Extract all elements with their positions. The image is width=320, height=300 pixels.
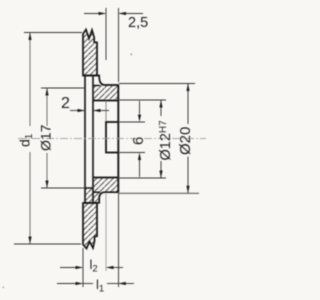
dimension l2 [60,248,123,287]
rim inner surface top [84,75,97,77]
dimension 2,5 (top) [84,8,143,82]
web lightening-hole bottom edge [85,187,93,189]
dimension d1 [14,33,82,245]
dimension diameter 17 [41,88,85,188]
svg-text:Ø20: Ø20 [177,127,194,155]
centerline axis [18,138,206,140]
dimension diameter 20 (hub) [119,84,199,194]
hub upper hatched band [93,76,118,101]
rim upper hatched area [83,30,97,76]
small scan speck [131,54,133,56]
svg-text:Ø17: Ø17 [38,124,54,151]
rim inner surface bottom [84,202,97,204]
dimension 2 (web) [70,110,109,112]
web left face [84,76,86,204]
hub right face [117,85,119,193]
boss recess step [106,122,118,153]
l2 extension from boss face [105,194,107,272]
dimension 6 (boss recess) [120,101,146,177]
svg-text:2: 2 [61,95,70,112]
svg-text:2,5: 2,5 [128,15,148,31]
dimension l1 [57,193,134,287]
hub lower hatched band + solid web (section below axis) [85,178,119,204]
boss edge seen in cavity [105,101,107,121]
svg-text:6: 6 [130,137,147,145]
rim lower hatched area [83,203,97,249]
web right face [92,76,94,204]
dimension diameter 12 H7 (cavity) [120,100,167,178]
